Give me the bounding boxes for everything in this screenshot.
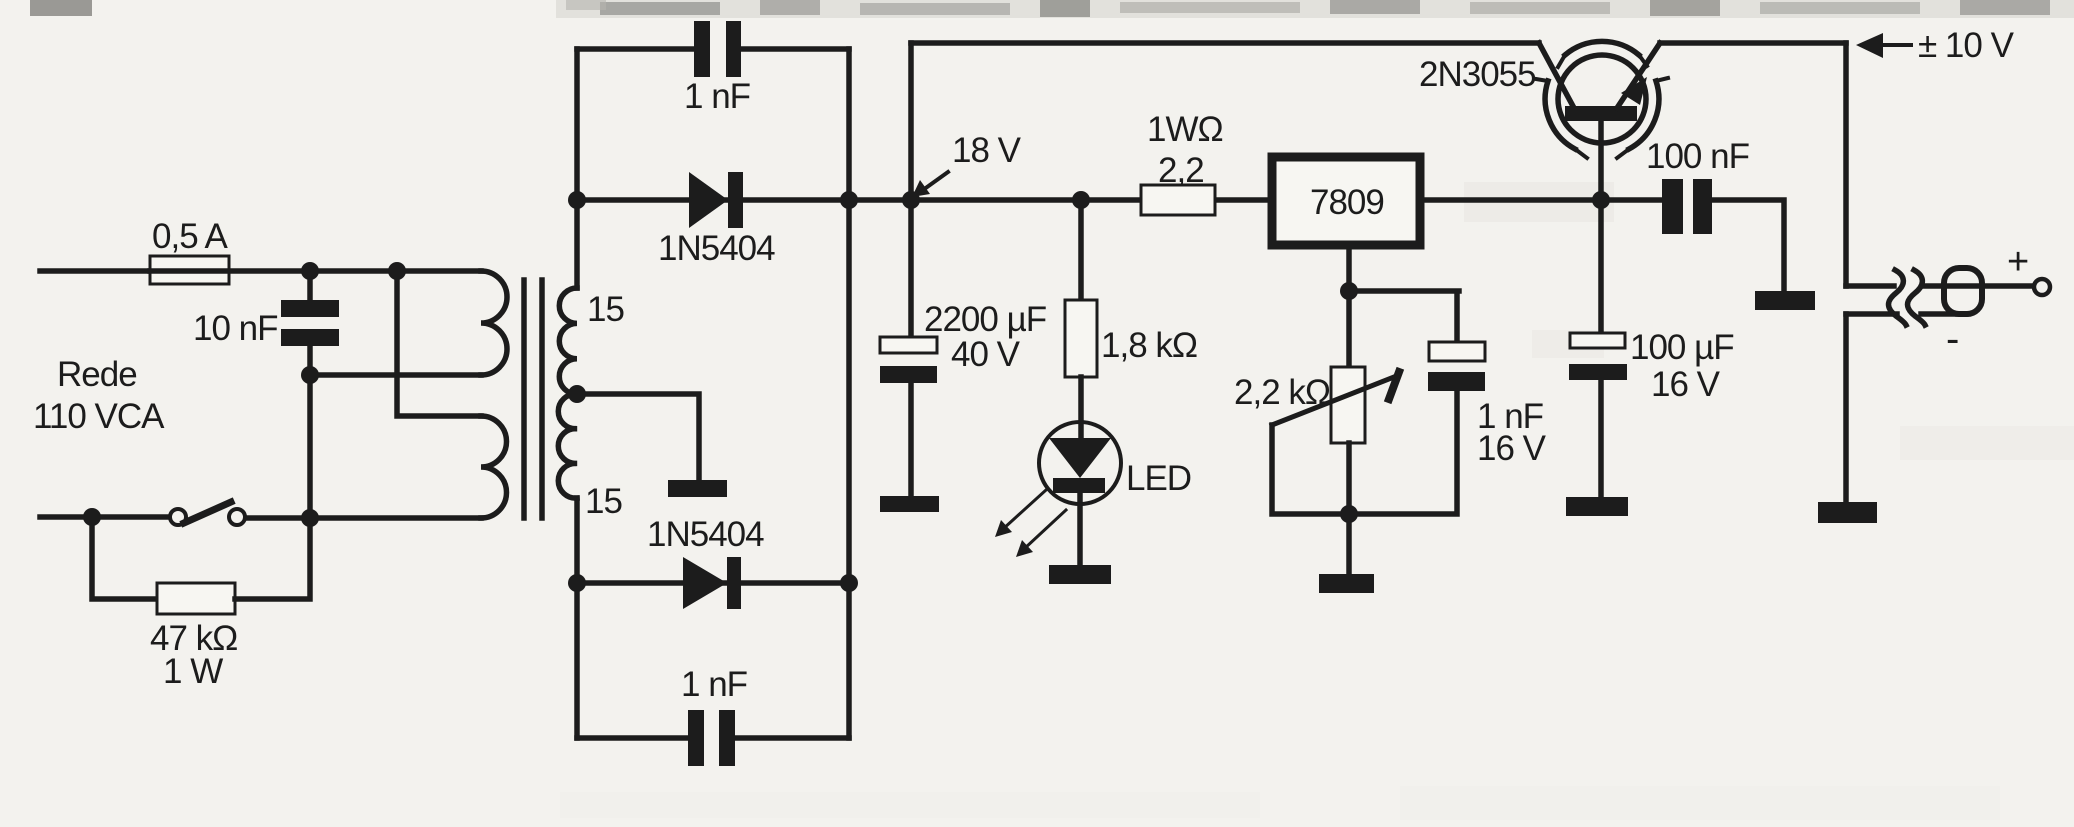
- wire output lower stub: [1846, 311, 1897, 317]
- capacitor C1 10nF plates: [281, 300, 339, 317]
- switch S1: [170, 509, 186, 525]
- wire wiper return: [1272, 425, 1349, 514]
- wire line2 vertical link: [307, 375, 313, 518]
- svg-text:40 V: 40 V: [951, 335, 1021, 374]
- svg-text:100 nF: 100 nF: [1646, 137, 1749, 176]
- node line2-47k right: [301, 509, 319, 527]
- fuse F1 0,5A: [150, 256, 229, 284]
- wire pot node to ground: [1346, 514, 1352, 574]
- wire 2200uF lead: [908, 200, 914, 337]
- node line2-47k left: [83, 508, 101, 526]
- wire 7809 ground pin: [1346, 245, 1352, 291]
- svg-text:10 nF: 10 nF: [193, 309, 278, 348]
- node D2 cathode: [840, 574, 858, 592]
- transistor Q1 outer arc left: [1545, 81, 1575, 149]
- cable break squiggle 2: [1908, 270, 1926, 325]
- node D1 cathode / right leg: [840, 191, 858, 209]
- node 1,8k branch: [1072, 191, 1090, 209]
- ground C6: [1755, 291, 1815, 310]
- svg-text:2,2: 2,2: [1158, 151, 1204, 190]
- wire output plus through ring: [1923, 283, 2033, 289]
- regulator U1 7809: [1272, 157, 1420, 245]
- transformer secondary winding top (15): [559, 288, 577, 394]
- wire top rail left: [911, 40, 1539, 46]
- svg-text:1WΩ: 1WΩ: [1147, 110, 1223, 149]
- wire base lead down: [1598, 121, 1604, 200]
- svg-text:1N5404: 1N5404: [658, 229, 775, 268]
- wire 1,8k to LED: [1078, 377, 1084, 438]
- arrow to 18V node: [923, 172, 948, 190]
- wire C6 right to ground: [1712, 200, 1784, 291]
- wire diode row D1: [577, 197, 1268, 203]
- svg-text:2N3055: 2N3055: [1419, 55, 1536, 94]
- wire output rail to ground: [1843, 314, 1849, 502]
- svg-text:0,5 A: 0,5 A: [152, 217, 228, 256]
- wire right leg of rectifier loops: [846, 49, 852, 738]
- wire 47k left drop: [92, 517, 157, 599]
- resistor R1 2,2 1W: [1141, 185, 1215, 215]
- LED light arrow 2: [1024, 510, 1066, 549]
- capacitor C2 1nF top plates: [694, 21, 710, 77]
- ground output rail: [1818, 502, 1877, 523]
- wire C1 leads: [307, 271, 313, 375]
- wire bottom loop: [577, 735, 849, 741]
- transformer T1 primary winding 1: [481, 271, 507, 375]
- capacitor C6 100nF plates: [1662, 179, 1683, 234]
- wire through fuse to transformer: [150, 268, 481, 274]
- node D1 anode: [568, 191, 586, 209]
- svg-text:110 VCA: 110 VCA: [33, 397, 165, 436]
- transformer core: [524, 280, 542, 518]
- transistor Q1 outer arc top: [1565, 41, 1639, 55]
- wire center tap to ground: [577, 394, 699, 480]
- node C1 bottom / winding1 return: [301, 366, 319, 384]
- svg-text:+: +: [2007, 241, 2028, 283]
- wire 1nF16V branch top: [1349, 291, 1459, 342]
- svg-text:7809: 7809: [1310, 183, 1384, 222]
- svg-text:15: 15: [587, 290, 624, 329]
- transistor Q1 body circle: [1558, 55, 1646, 143]
- svg-text:1,8 kΩ: 1,8 kΩ: [1101, 326, 1197, 365]
- svg-text:16 V: 16 V: [1477, 429, 1547, 468]
- wire 47k right return: [235, 518, 310, 599]
- potentiometer P1 2,2k: [1331, 367, 1365, 443]
- svg-text:1 nF: 1 nF: [681, 665, 747, 704]
- wire pot bottom lead: [1346, 443, 1352, 514]
- wire top rail drop to 18V node: [908, 43, 914, 200]
- ground C7: [1566, 497, 1628, 516]
- node base junction: [1592, 191, 1610, 209]
- wire 1,8k top lead: [1078, 200, 1084, 300]
- transformer secondary winding bottom (15): [558, 394, 577, 498]
- wire 100uF top lead: [1598, 200, 1604, 333]
- ground pot: [1319, 574, 1374, 593]
- capacitor C5 1nF 16V: [1429, 342, 1485, 361]
- node pot bottom: [1340, 505, 1358, 523]
- wire mains line 2: [40, 514, 169, 520]
- node mains-primary crossover top: [388, 262, 406, 280]
- pot wiper arrow: [1272, 377, 1394, 425]
- svg-text:15: 15: [585, 482, 622, 521]
- wire diode row D2: [577, 580, 849, 586]
- cable break squiggle 1: [1889, 270, 1907, 325]
- svg-text:1 W: 1 W: [163, 652, 223, 691]
- capacitor C7 100uF 16V: [1570, 333, 1625, 348]
- wire top loop to right leg: [741, 46, 849, 52]
- svg-text:-: -: [1946, 317, 1958, 361]
- node D2 anode: [568, 574, 586, 592]
- ground C4: [880, 496, 939, 512]
- node 7809 ground pin: [1340, 282, 1358, 300]
- wire C4 to ground: [908, 383, 914, 496]
- wire top loop upper: [577, 46, 694, 52]
- wire mains line 1: [40, 268, 150, 274]
- wire switch to transformer: [246, 515, 481, 521]
- LED D3: [1039, 422, 1121, 504]
- svg-text:Rede: Rede: [57, 355, 137, 394]
- arrowhead +-10V: [1856, 33, 1883, 58]
- svg-text:2,2 kΩ: 2,2 kΩ: [1234, 373, 1330, 412]
- wire secondary bottom lead: [574, 498, 580, 738]
- resistor R2 1,8k: [1065, 300, 1097, 377]
- wire secondary top lead: [574, 49, 580, 288]
- wire C7 to ground: [1598, 380, 1604, 497]
- svg-text:16 V: 16 V: [1651, 365, 1721, 404]
- ground LED: [1049, 565, 1111, 584]
- wire output minus: [1921, 311, 1966, 317]
- resistor 47k 1W: [157, 583, 235, 614]
- transistor Q1 emitter lead with arrow: [1617, 43, 1660, 108]
- transistor Q1 collector lead: [1539, 43, 1574, 108]
- transformer T1 primary winding 2: [481, 416, 507, 518]
- wire top rail right: [1660, 40, 1846, 46]
- svg-text:± 10 V: ± 10 V: [1918, 26, 2015, 65]
- node center tap: [568, 385, 586, 403]
- wire output upper stub: [1846, 283, 1894, 289]
- diode D2 1N5404: [683, 557, 727, 609]
- transistor Q1 outer arc right: [1629, 81, 1659, 149]
- terminal circle plus: [2034, 279, 2050, 295]
- transistor Q1 base bar: [1565, 106, 1637, 121]
- transformer T1 crossover wire: [397, 271, 481, 416]
- diode D1 1N5404: [689, 172, 728, 228]
- svg-text:2200 µF: 2200 µF: [924, 300, 1046, 339]
- ground center tap: [668, 480, 727, 497]
- LED light arrow 1: [1003, 490, 1046, 529]
- wire C5 bottom return: [1349, 391, 1457, 514]
- svg-text:1N5404: 1N5404: [647, 515, 764, 554]
- wire winding1 bottom return: [310, 372, 481, 378]
- wire LED to ground: [1077, 493, 1083, 565]
- wire 7809 output: [1420, 197, 1662, 203]
- node 18V: [902, 191, 920, 209]
- cable ring: [1944, 268, 1982, 314]
- wire output rail down: [1843, 43, 1849, 286]
- capacitor C4 2200uF 40V: [880, 337, 937, 353]
- wire pot top lead: [1346, 291, 1352, 367]
- svg-text:LED: LED: [1126, 459, 1191, 498]
- svg-text:18 V: 18 V: [952, 131, 1022, 170]
- svg-text:1 nF: 1 nF: [684, 77, 750, 116]
- node mains-C1 top: [301, 262, 319, 280]
- svg-text:100 µF: 100 µF: [1630, 328, 1734, 367]
- capacitor C3 1nF bottom plates: [688, 710, 704, 766]
